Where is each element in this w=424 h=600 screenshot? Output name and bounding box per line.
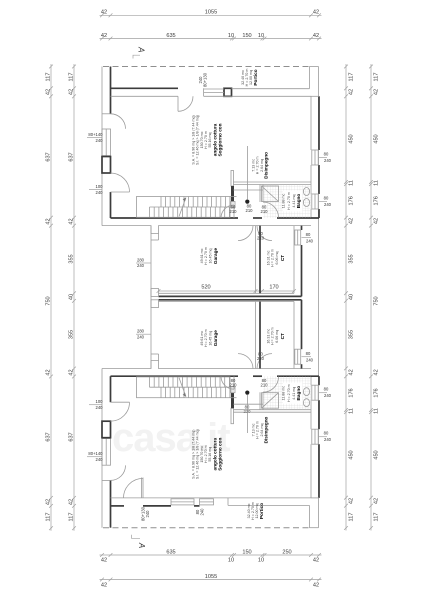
svg-text:450: 450 xyxy=(373,134,379,143)
svg-text:240: 240 xyxy=(324,393,332,398)
left wall window 80+140 upper xyxy=(102,129,111,156)
svg-text:7.13 mc: 7.13 mc xyxy=(252,159,256,172)
bagno door 80/210 lower, swing arc xyxy=(263,377,279,393)
dimension chain line x=346 xyxy=(344,64,354,531)
top wall bold outer face xyxy=(111,87,179,89)
bagno left wall lower xyxy=(260,392,263,410)
svg-text:4.41 mq: 4.41 mq xyxy=(292,387,296,400)
shower lower xyxy=(262,393,279,409)
svg-text:210: 210 xyxy=(246,208,254,213)
svg-text:176: 176 xyxy=(373,196,379,205)
svg-text:42: 42 xyxy=(45,499,51,505)
svg-text:42: 42 xyxy=(313,558,319,564)
svg-text:117: 117 xyxy=(68,73,74,82)
svg-text:7.13 mc: 7.13 mc xyxy=(252,423,256,436)
portico bottom-right outline xyxy=(228,498,319,528)
roof edge line right xyxy=(318,67,320,528)
wall below upper unit (thin bottom face with jog) xyxy=(102,226,311,234)
svg-text:Bagno: Bagno xyxy=(296,386,301,401)
label 80/210 garage door upper xyxy=(246,204,254,214)
svg-text:S.I. = 12.46 mq > 1/8 (7.44 mq: S.I. = 12.46 mq > 1/8 (7.44 mq) xyxy=(196,115,200,165)
right wall upper unit outer face bold xyxy=(318,96,320,218)
disimpegno top edge upper xyxy=(234,189,264,191)
svg-text:210: 210 xyxy=(230,209,238,214)
svg-text:750: 750 xyxy=(45,296,51,305)
svg-text:100: 100 xyxy=(96,399,104,404)
right wall lower unit outer face bold xyxy=(318,376,320,498)
garage door label 280/240 lower xyxy=(136,329,151,340)
garage door label 280/240 upper xyxy=(136,257,151,268)
left wall pier upper xyxy=(102,157,111,174)
svg-text:635: 635 xyxy=(166,33,175,39)
soggiorno label upper xyxy=(192,115,223,165)
wall garage-CT upper xyxy=(256,226,261,294)
dimension chain line y=38.5 xyxy=(100,33,322,41)
label 80/240 CT window upper xyxy=(306,232,314,244)
section marker A top xyxy=(133,46,146,58)
svg-text:42: 42 xyxy=(348,218,354,224)
CT window 80/240 upper xyxy=(295,230,311,245)
svg-text:Garage: Garage xyxy=(213,248,218,265)
roof overhang line bottom-right corner xyxy=(309,527,318,529)
svg-text:240: 240 xyxy=(306,239,314,244)
svg-text:210: 210 xyxy=(261,209,269,214)
bagno left wall upper xyxy=(260,185,263,203)
wc lower xyxy=(303,399,309,407)
CT right wall upper xyxy=(294,226,302,297)
svg-text:11: 11 xyxy=(373,408,379,414)
bagno label upper xyxy=(282,192,302,210)
door 80/210 disimpegno upper, swing arc xyxy=(221,205,234,218)
svg-text:635: 635 xyxy=(166,549,175,555)
bagno top wall 11cm lower xyxy=(234,410,312,413)
svg-text:49.61 mc: 49.61 mc xyxy=(200,331,204,346)
svg-text:2.64 mq: 2.64 mq xyxy=(260,424,264,437)
svg-text:117: 117 xyxy=(348,513,354,522)
bagno door 80/210 upper, swing arc xyxy=(263,202,279,218)
svg-text:42: 42 xyxy=(68,89,74,95)
svg-text:11: 11 xyxy=(373,180,379,186)
bagno top wall 11cm upper xyxy=(234,182,312,185)
svg-text:80: 80 xyxy=(324,431,329,436)
label 80/210 disimpegno door lower xyxy=(230,378,238,388)
garage label upper xyxy=(200,247,218,265)
svg-text:450: 450 xyxy=(348,450,354,459)
svg-text:2.64 mq: 2.64 mq xyxy=(260,159,264,172)
svg-text:42: 42 xyxy=(101,583,107,589)
disimpegno top edge lower xyxy=(234,403,264,405)
svg-text:42: 42 xyxy=(101,10,107,16)
dimension chain line y=15.3 xyxy=(100,10,322,18)
svg-text:250: 250 xyxy=(282,549,291,555)
footing line left lower xyxy=(101,369,103,528)
svg-text:240: 240 xyxy=(324,202,332,207)
svg-text:80: 80 xyxy=(324,387,329,392)
svg-text:210: 210 xyxy=(261,383,269,388)
svg-text:240: 240 xyxy=(96,405,104,410)
top wall thin inner face xyxy=(111,95,312,97)
svg-text:H = 2.70 m: H = 2.70 m xyxy=(256,157,260,175)
label 100/240 left wall lower xyxy=(89,399,103,410)
garage wall inner face upper stub xyxy=(151,234,159,241)
shower upper xyxy=(262,186,279,202)
svg-text:80: 80 xyxy=(324,196,329,201)
door jamb hatch lower xyxy=(231,387,235,393)
svg-text:450: 450 xyxy=(348,134,354,143)
svg-text:CT: CT xyxy=(280,255,285,261)
bagno label white underlay upper xyxy=(283,191,303,212)
door 80/210 disimpegno lower, swing arc xyxy=(221,376,234,389)
bottom wall door 80, leaf and arc xyxy=(124,478,144,498)
door 80 left wall lower, swing arc xyxy=(111,465,126,480)
door 80/210 landing-garage upper xyxy=(238,226,253,241)
svg-text:6.06 mq: 6.06 mq xyxy=(275,330,279,343)
svg-text:12.00 mq: 12.00 mq xyxy=(249,70,253,85)
party slab bold line lower xyxy=(159,299,302,301)
bottom chain below-line labels xyxy=(101,558,319,564)
door jamb hatch upper xyxy=(231,202,235,208)
svg-text:80: 80 xyxy=(306,232,311,237)
svg-text:40: 40 xyxy=(68,294,74,300)
svg-text:117: 117 xyxy=(45,513,51,522)
svg-text:11: 11 xyxy=(348,180,354,186)
label 100/240 left wall upper xyxy=(89,184,103,195)
svg-text:100: 100 xyxy=(96,184,104,189)
svg-text:10: 10 xyxy=(228,558,234,564)
left wall pier lower xyxy=(102,421,111,438)
svg-text:117: 117 xyxy=(68,513,74,522)
svg-text:150: 150 xyxy=(242,33,251,39)
roof overhang dashed line top xyxy=(103,66,309,68)
dimension chain line y=555 xyxy=(100,549,322,557)
svg-text:S.A. = 8.96 mq > 1/8 (7.44 mq): S.A. = 8.96 mq > 1/8 (7.44 mq) xyxy=(192,115,196,164)
svg-text:32.40 mc: 32.40 mc xyxy=(247,503,251,518)
right wall lower unit inner face xyxy=(310,376,312,498)
svg-text:Disimpegno: Disimpegno xyxy=(264,416,269,443)
party slab thin edge upper xyxy=(159,292,295,294)
svg-text:angolo cottura: angolo cottura xyxy=(213,123,218,156)
svg-text:A: A xyxy=(137,46,146,52)
party slab bold line upper xyxy=(159,295,302,297)
svg-text:150.70 mc: 150.70 mc xyxy=(200,446,204,463)
door 100 left wall lower, swing arc xyxy=(111,402,130,421)
disimpegno wall bar lower xyxy=(231,393,234,409)
svg-text:H = 2.70 m: H = 2.70 m xyxy=(287,192,291,210)
door 100 left wall upper, swing arc xyxy=(111,173,130,192)
label 80/240 window bagno lower xyxy=(324,387,332,399)
svg-text:240: 240 xyxy=(137,334,145,339)
wall above lower unit (bold bottom face) xyxy=(111,375,320,377)
svg-text:H = 2.70 m: H = 2.70 m xyxy=(204,445,208,463)
svg-text:240: 240 xyxy=(324,437,332,442)
svg-text:42: 42 xyxy=(313,33,319,39)
svg-text:42: 42 xyxy=(373,498,379,504)
svg-text:Bagno: Bagno xyxy=(296,194,301,209)
svg-text:355: 355 xyxy=(68,254,74,263)
svg-text:55.16 mq: 55.16 mq xyxy=(208,133,212,148)
dimension chain line y=579.5 xyxy=(100,574,322,582)
svg-text:42: 42 xyxy=(313,10,319,16)
svg-text:angolo cottura: angolo cottura xyxy=(213,438,218,471)
staircase lower unit xyxy=(137,377,231,398)
svg-text:55.16 mq: 55.16 mq xyxy=(208,447,212,462)
CT window 80/240 lower xyxy=(295,349,311,364)
wc upper xyxy=(303,188,309,196)
disimpegno label upper xyxy=(252,152,269,179)
label 80/210 bagno door upper xyxy=(261,205,269,215)
label 80/210 CT door upper xyxy=(257,231,265,241)
svg-text:240: 240 xyxy=(137,263,145,268)
bottom wall window 2 xyxy=(200,499,214,505)
svg-text:42: 42 xyxy=(45,89,51,95)
label 80/210 CT door lower xyxy=(257,352,265,362)
svg-text:10: 10 xyxy=(258,33,264,39)
svg-text:H = 2.70 m: H = 2.70 m xyxy=(287,384,291,402)
svg-text:280: 280 xyxy=(137,329,145,334)
svg-text:240: 240 xyxy=(96,457,104,462)
disimpegno leader line and dot upper xyxy=(245,146,249,204)
portico label bottom xyxy=(247,502,264,520)
svg-text:80: 80 xyxy=(324,152,329,157)
svg-text:CT: CT xyxy=(280,333,285,339)
landing edge line lower xyxy=(230,397,237,399)
svg-text:42: 42 xyxy=(45,369,51,375)
label 80/240 window soggiorno lower xyxy=(324,431,332,443)
svg-text:210: 210 xyxy=(230,383,238,388)
party slab thin edge lower xyxy=(159,301,295,303)
kitchen wall fin upper xyxy=(231,171,234,187)
label 80/210 bagno door lower xyxy=(261,378,269,388)
svg-text:240: 240 xyxy=(96,190,104,195)
svg-text:240: 240 xyxy=(306,358,314,363)
svg-text:117: 117 xyxy=(348,73,354,82)
svg-text:450: 450 xyxy=(373,450,379,459)
CT right wall lower xyxy=(294,300,302,369)
label 80/210 disimpegno door upper xyxy=(230,205,238,215)
svg-text:40: 40 xyxy=(348,294,354,300)
right wall window 80/240 bagno xyxy=(312,194,327,209)
label 80/240 window soggiorno xyxy=(324,152,332,164)
svg-text:240: 240 xyxy=(200,508,205,516)
svg-text:Portico: Portico xyxy=(253,69,258,85)
garage wall inner face lower stub xyxy=(151,354,159,361)
door 80/210 into CT upper xyxy=(257,226,272,241)
svg-text:42: 42 xyxy=(373,369,379,375)
svg-text:S.A. = 8.96 mq > 1/8 (7.44 mq): S.A. = 8.96 mq > 1/8 (7.44 mq) xyxy=(192,430,196,479)
svg-text:42: 42 xyxy=(348,369,354,375)
svg-text:Disimpegno: Disimpegno xyxy=(264,152,269,179)
svg-text:H = 2.70 m: H = 2.70 m xyxy=(271,327,275,345)
door 80 left wall upper, swing arc xyxy=(111,114,126,129)
garage outer wall line left x=151 xyxy=(150,226,152,369)
svg-text:176: 176 xyxy=(348,388,354,397)
svg-text:42: 42 xyxy=(101,33,107,39)
top wall door+window 80+130/240 xyxy=(178,88,224,111)
svg-text:80+140: 80+140 xyxy=(88,132,103,137)
wall above lower unit (thin top face with jog) xyxy=(102,361,311,369)
label 80/210 garage door lower xyxy=(244,405,252,415)
svg-text:1055: 1055 xyxy=(205,10,217,16)
section marker A bottom xyxy=(132,535,146,548)
svg-text:H = 2.70 m: H = 2.70 m xyxy=(271,249,275,267)
svg-text:10: 10 xyxy=(228,33,234,39)
bottom chain 42 labels xyxy=(101,583,319,589)
bottom wall window 1 xyxy=(171,499,194,505)
internal dimension 520/170 xyxy=(157,285,296,293)
svg-text:750: 750 xyxy=(373,296,379,305)
svg-text:240: 240 xyxy=(96,138,104,143)
svg-text:H = 2.70 m: H = 2.70 m xyxy=(251,502,255,520)
svg-text:12.00 mq: 12.00 mq xyxy=(255,504,259,519)
staircase upper unit xyxy=(137,197,231,218)
svg-text:11.88 mc: 11.88 mc xyxy=(282,194,286,209)
label 80/240 window bagno xyxy=(324,196,332,208)
bagno floor tiles lower xyxy=(263,376,311,410)
svg-text:42: 42 xyxy=(68,218,74,224)
svg-text:6.06 mq: 6.06 mq xyxy=(275,252,279,265)
disimpegno wall bar upper xyxy=(231,186,234,202)
right wall window 80/240 soggiorno lower xyxy=(312,429,327,444)
svg-text:520: 520 xyxy=(201,285,210,291)
svg-text:16.31 mc: 16.31 mc xyxy=(267,329,271,344)
svg-text:49.61 mc: 49.61 mc xyxy=(200,248,204,263)
svg-text:117: 117 xyxy=(373,513,379,522)
svg-text:1055: 1055 xyxy=(205,574,217,580)
svg-text:80+130: 80+130 xyxy=(203,72,208,87)
svg-text:A: A xyxy=(137,542,146,548)
svg-text:42: 42 xyxy=(68,369,74,375)
party wall stubs at garage doors xyxy=(151,289,159,308)
svg-text:Soggiorno con: Soggiorno con xyxy=(218,123,223,156)
left wall window 80+140 lower xyxy=(102,439,111,466)
door 80/210 into CT lower xyxy=(257,354,272,369)
dimension chain line x=74 xyxy=(68,64,76,531)
svg-text:42: 42 xyxy=(101,558,107,564)
bottom wall bold outer face xyxy=(111,505,200,507)
svg-text:637: 637 xyxy=(68,152,74,161)
svg-text:42: 42 xyxy=(313,583,319,589)
right wall window 80/240 bagno lower xyxy=(312,385,327,400)
svg-text:280: 280 xyxy=(137,257,145,262)
svg-text:176: 176 xyxy=(373,388,379,397)
wall below upper unit (bold top face) xyxy=(111,217,320,219)
left wall upper unit xyxy=(102,67,111,219)
svg-text:240: 240 xyxy=(145,510,150,518)
svg-text:170: 170 xyxy=(269,285,278,291)
bidet upper xyxy=(303,199,309,207)
svg-text:H = 2.70 m: H = 2.70 m xyxy=(256,421,260,439)
svg-text:Soggiorno con: Soggiorno con xyxy=(218,438,223,471)
svg-text:11: 11 xyxy=(348,408,354,414)
CT label lower xyxy=(267,327,286,345)
svg-text:S.I. = 12.46 mq > 1/8 (7.44 mq: S.I. = 12.46 mq > 1/8 (7.44 mq) xyxy=(196,429,200,479)
right wall window 80/240 soggiorno xyxy=(312,150,327,165)
svg-text:150.70 mc: 150.70 mc xyxy=(200,131,204,148)
left wall lower unit xyxy=(102,376,111,528)
svg-text:H = 2.70 m: H = 2.70 m xyxy=(204,247,208,265)
svg-text:Garage: Garage xyxy=(213,330,218,347)
label 80/240 bottom wall (rotated) xyxy=(195,508,205,516)
portico top-right outline xyxy=(232,67,320,97)
bagno label lower xyxy=(282,384,302,402)
svg-text:42: 42 xyxy=(348,498,354,504)
svg-text:42: 42 xyxy=(45,218,51,224)
bagno floor tiles upper xyxy=(263,185,311,219)
svg-text:637: 637 xyxy=(45,152,51,161)
svg-text:32.40 mc: 32.40 mc xyxy=(241,70,245,85)
svg-text:240: 240 xyxy=(324,158,332,163)
svg-text:H = 2.70 m: H = 2.70 m xyxy=(245,69,249,87)
door 80/210 landing-garage lower xyxy=(238,354,253,369)
svg-text:42: 42 xyxy=(373,218,379,224)
svg-text:H = 2.70 m: H = 2.70 m xyxy=(204,329,208,347)
roof overhang dashed line bottom xyxy=(103,527,309,529)
svg-text:176: 176 xyxy=(348,196,354,205)
svg-text:16.31 mc: 16.31 mc xyxy=(267,250,271,265)
wall garage-CT lower xyxy=(256,302,261,369)
label 80+140/240 left wall lower xyxy=(87,451,103,462)
svg-text:42: 42 xyxy=(348,89,354,95)
svg-text:11.88 mc: 11.88 mc xyxy=(282,386,286,401)
svg-text:637: 637 xyxy=(45,432,51,441)
portico label top xyxy=(241,69,258,87)
dimension chain line x=371 xyxy=(369,64,379,531)
svg-text:150: 150 xyxy=(242,549,251,555)
svg-text:4.41 mq: 4.41 mq xyxy=(292,195,296,208)
svg-text:H = 2.70 m: H = 2.70 m xyxy=(204,131,208,149)
svg-text:355: 355 xyxy=(348,330,354,339)
bidet lower xyxy=(303,388,309,396)
bagno label white underlay lower xyxy=(283,383,303,404)
watermark casa.it xyxy=(112,416,230,460)
CT label upper xyxy=(267,249,286,267)
kitchen wall fin lower xyxy=(231,408,234,424)
svg-text:16.45 mq: 16.45 mq xyxy=(209,331,213,346)
garage label lower xyxy=(200,329,218,347)
svg-text:355: 355 xyxy=(348,254,354,263)
svg-text:10: 10 xyxy=(258,558,264,564)
svg-text:355: 355 xyxy=(68,330,74,339)
disimpegno label lower xyxy=(252,416,269,443)
svg-text:Portico: Portico xyxy=(259,503,264,519)
top wall pier at portico xyxy=(224,88,232,96)
svg-text:117: 117 xyxy=(45,73,51,82)
svg-text:42: 42 xyxy=(373,89,379,95)
roof overhang line top-right corner xyxy=(309,66,318,68)
disimpegno leader line and dot lower xyxy=(245,391,249,434)
soggiorno label lower xyxy=(192,429,223,479)
label 80+140/240 left wall upper xyxy=(87,132,103,143)
svg-text:117: 117 xyxy=(373,73,379,82)
svg-text:80: 80 xyxy=(306,351,311,356)
bottom wall thin inner face xyxy=(111,497,312,499)
footing line left upper xyxy=(101,67,103,226)
right wall upper unit inner face xyxy=(310,96,312,218)
svg-text:240: 240 xyxy=(198,76,203,84)
label 80+130/240 bottom wall (rotated) xyxy=(141,506,151,521)
landing edge line upper xyxy=(230,196,237,198)
svg-text:637: 637 xyxy=(68,432,74,441)
label 80+130/240 top wall (rotated) xyxy=(198,72,208,87)
svg-text:80+140: 80+140 xyxy=(88,451,103,456)
dimension chain line x=51 xyxy=(45,64,53,531)
label 80/240 CT window lower xyxy=(306,351,314,363)
svg-text:42: 42 xyxy=(68,499,74,505)
svg-text:16.45 mq: 16.45 mq xyxy=(209,249,213,264)
